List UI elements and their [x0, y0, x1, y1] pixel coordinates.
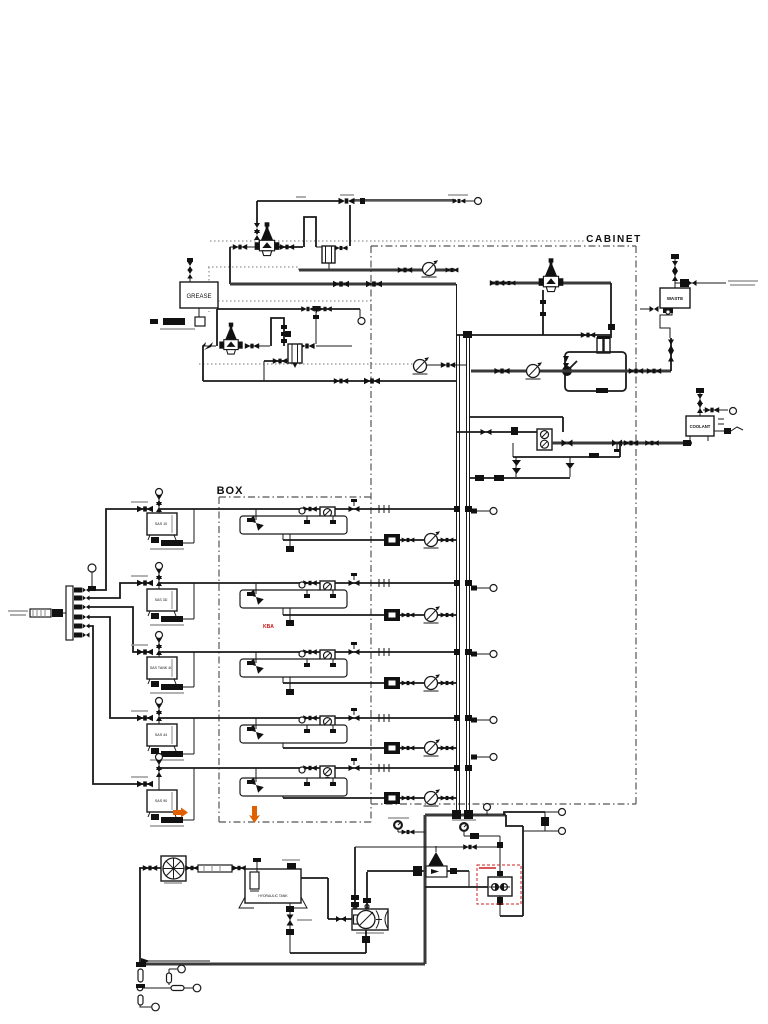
svg-text:HYDRAULIC TANK: HYDRAULIC TANK	[258, 894, 288, 898]
svg-text:WASTE: WASTE	[667, 296, 683, 301]
svg-text:BOX: BOX	[217, 485, 244, 497]
svg-text:SAS 10: SAS 10	[155, 522, 167, 526]
svg-text:CABINET: CABINET	[586, 234, 642, 245]
svg-text:SAS 3D: SAS 3D	[155, 598, 168, 602]
svg-text:SAS 44: SAS 44	[155, 733, 167, 737]
svg-text:GREASE: GREASE	[186, 294, 211, 300]
svg-text:KBA: KBA	[263, 624, 274, 630]
svg-text:SAS TANK 40: SAS TANK 40	[150, 666, 172, 670]
svg-text:SAS 90: SAS 90	[155, 799, 167, 803]
svg-text:COOLANT: COOLANT	[690, 424, 711, 429]
